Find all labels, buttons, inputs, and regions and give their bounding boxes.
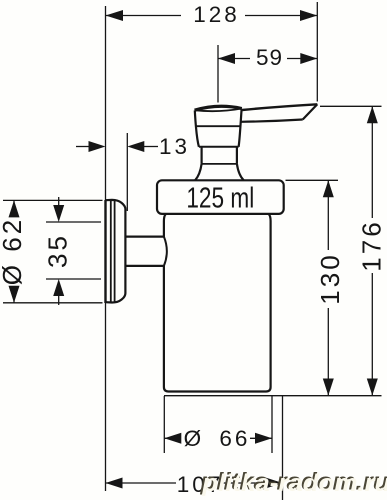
- arrowhead 59 left: [218, 53, 235, 64]
- arrowhead 176 top: [367, 106, 378, 123]
- wire: extension line bottle bottom (176/130 bottom): [164, 395, 382, 397]
- handle end bevel: [303, 104, 318, 119]
- bottle body: [164, 214, 271, 392]
- arm bottom line: [126, 265, 164, 267]
- wire: extension line plate front (13): [126, 133, 128, 211]
- arrowhead 130 top: [323, 180, 334, 197]
- wire: left wall extension line lower: [105, 303, 107, 491]
- handle bottom edge: [241, 120, 303, 122]
- pump body bottom line: [199, 146, 239, 148]
- arrowhead 107 left: [106, 478, 123, 489]
- wire: left wall extension line upper: [105, 6, 107, 200]
- wire: extension line handle tip right (176 top): [320, 105, 382, 107]
- arrowhead 13 left (points right): [89, 141, 106, 152]
- arrowhead 176 bottom: [367, 379, 378, 396]
- wall plate inner line 2: [114, 200, 116, 302]
- pump cap bottom arc: [195, 109, 242, 112]
- arrowhead 128 left: [106, 10, 124, 21]
- wall plate back edge: [104, 200, 106, 303]
- arrowhead 130 bottom: [323, 379, 334, 396]
- svg-text:125 ml: 125 ml: [186, 181, 254, 214]
- pump neck bottom line: [202, 163, 237, 165]
- wire: extension line plate top (d62): [3, 199, 103, 201]
- svg-text:128: 128: [193, 2, 240, 27]
- dimension line 13 left tail: [76, 146, 90, 148]
- dimension line 35 bottom tail: [58, 294, 60, 305]
- arrowhead d62 top (points up): [9, 200, 20, 217]
- wire: right extension line from handle tip up: [316, 2, 318, 102]
- arrowhead d66 left: [164, 433, 181, 444]
- wire: extension line collar front down (107): [282, 396, 284, 500]
- dimension line d62: [13, 200, 15, 214]
- arrowhead 59 right: [300, 53, 317, 64]
- pump body left edge: [195, 110, 199, 146]
- dimension line d66: [164, 437, 181, 439]
- pump body mid line: [196, 125, 240, 127]
- svg-text:35: 35: [43, 233, 73, 268]
- dimension line 128: [106, 15, 182, 17]
- arrowhead 13 right (points left): [127, 141, 144, 152]
- pump cap top arc: [195, 106, 242, 110]
- collar band 125ml: [157, 180, 284, 214]
- svg-text:59: 59: [256, 45, 283, 70]
- pump neck left: [201, 147, 203, 164]
- wall plate inner line 1: [110, 200, 112, 302]
- wall plate outline: [106, 200, 126, 303]
- holder ring bulge: [164, 237, 167, 266]
- pump flare left: [195, 164, 201, 180]
- dimension line 59: [218, 58, 250, 60]
- dimension line 13 right tail: [142, 146, 158, 148]
- dimension line 176: [371, 106, 373, 218]
- arrowhead 128 right: [300, 10, 317, 21]
- wire: extension line bottle right down (d66): [271, 396, 273, 453]
- arrowhead d66 right: [255, 433, 272, 444]
- wire: extension line hub top (35): [46, 221, 101, 223]
- svg-text:130: 130: [315, 252, 345, 304]
- handle top edge: [242, 104, 317, 110]
- wire: extension line collar top right (130 top): [286, 179, 339, 181]
- wire: extension line bottle left down (d66): [163, 396, 165, 453]
- pump body right edge: [239, 109, 242, 147]
- svg-text:Ø 66: Ø 66: [184, 426, 251, 451]
- svg-text:Ø 62: Ø 62: [0, 217, 27, 285]
- dimension line 130: [327, 180, 329, 250]
- svg-text:13: 13: [159, 134, 190, 159]
- dimension line 35 top tail: [58, 197, 60, 207]
- dimension line 107: [106, 482, 177, 484]
- svg-text:plitka-radom.ru: plitka-radom.ru: [201, 470, 387, 497]
- arrowhead 35 top (points down): [53, 205, 64, 222]
- arrowhead 35 bottom (points up): [53, 279, 64, 296]
- arrowhead 107 right: [266, 478, 283, 489]
- wire: extension line pump center: [217, 45, 219, 103]
- svg-text:176: 176: [357, 219, 387, 271]
- wire: extension line hub bottom (35): [46, 278, 101, 280]
- arrowhead d62 bottom (points down): [9, 286, 20, 303]
- arm top line: [126, 236, 164, 238]
- pump flare right: [237, 164, 244, 180]
- pump neck right: [236, 147, 238, 164]
- wire: extension line plate bottom (d62): [3, 302, 103, 304]
